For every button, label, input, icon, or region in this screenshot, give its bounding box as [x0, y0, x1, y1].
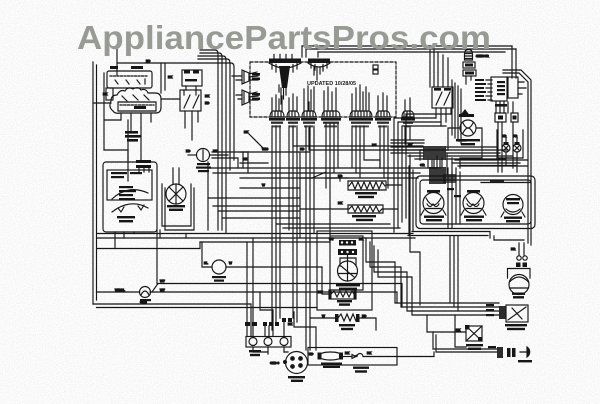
- fan motor label: [512, 293, 525, 295]
- bus wire 4: [97, 242, 200, 249]
- wire lamps drop: [506, 152, 517, 158]
- drop wire c1c: [279, 126, 281, 318]
- terminal wires labels row 5: [275, 322, 279, 326]
- wire door lock feed stub: [455, 314, 499, 316]
- wire right column b: [212, 152, 248, 168]
- small box pair 2 mark: [513, 116, 517, 120]
- connector J4 sub label: [324, 125, 337, 127]
- upper box dashed row: [110, 75, 148, 77]
- DLB upper pin blobs 2: [193, 71, 199, 74]
- surface unit RF label 2: [466, 219, 482, 221]
- broil element label: [339, 324, 355, 326]
- relay K2 routed wire a: [394, 118, 436, 232]
- terminal wires labels row 7: [288, 318, 292, 322]
- door lock motor label: [505, 324, 527, 326]
- connector J6 sub label: [352, 125, 369, 127]
- bottom right bars: [507, 348, 511, 357]
- relay K2 pin blobs: [434, 88, 441, 91]
- wire J5 drops: [139, 168, 149, 172]
- connector J1 bell body: [270, 111, 284, 117]
- center horiz wire e: [208, 197, 300, 199]
- junction blob center: [423, 146, 446, 160]
- connector J2 sub label: [289, 125, 296, 127]
- main bus wire 2: [97, 237, 415, 239]
- svg-text:W: W: [229, 261, 232, 265]
- svg-text:BU: BU: [372, 143, 376, 147]
- bake element U label: [352, 215, 376, 217]
- relay pin wire 4: [150, 113, 152, 122]
- plug receptacle label: [353, 367, 369, 369]
- junction fan wire 5: [446, 158, 505, 160]
- svg-text:AppliancePartsPros.com: AppliancePartsPros.com: [77, 19, 491, 56]
- relay K2 box: [432, 87, 453, 108]
- center horiz wire h: [222, 217, 300, 219]
- terminal block label: [249, 350, 261, 352]
- connector J4 label band 2: [323, 122, 339, 124]
- connector J8 bell ribs: [404, 112, 410, 117]
- terminal block label 2: [250, 354, 260, 356]
- surface units outer loop: [416, 176, 535, 229]
- center horiz wire g: [218, 210, 300, 212]
- surface unit RR label: [504, 217, 522, 219]
- wire door relay feed: [427, 315, 466, 332]
- stair step wire b: [370, 242, 499, 307]
- motor loop U1: [162, 184, 191, 226]
- drop wire c4b: [329, 124, 331, 236]
- connector J7 label band: [375, 118, 391, 121]
- center horiz wire j: [283, 227, 400, 229]
- conv fan hatch 2 dots b: [346, 251, 348, 253]
- center horiz wire b: [213, 172, 420, 174]
- connector P1 shell arc: [269, 63, 301, 68]
- temp control label rows: [117, 216, 135, 218]
- broil element caps: [335, 314, 339, 322]
- wire plug right: [364, 352, 434, 357]
- connector J3 sub label: [304, 125, 313, 127]
- wire lamps cluster drops: [498, 122, 517, 172]
- terminal screw 2: [264, 338, 272, 346]
- surface unit RR inner rows: [506, 198, 520, 200]
- surface unit RF omega: [467, 204, 479, 207]
- DLB upper pin blobs: [184, 71, 190, 74]
- connector P1 label band: [269, 59, 301, 64]
- wire relay-DLB link: [161, 98, 180, 100]
- connector J1 sub label: [272, 125, 281, 127]
- conv fan label: [336, 284, 360, 286]
- bake element U right wire: [383, 208, 398, 210]
- oven indicator label rows 2: [461, 143, 475, 145]
- DLB link wires: [186, 86, 196, 90]
- center long wire k: [293, 128, 423, 146]
- svg-text:W: W: [322, 314, 325, 318]
- terminal wires labels row 6: [282, 318, 286, 322]
- connector J4 pins: [324, 87, 336, 111]
- clock pin row 6: [475, 99, 486, 101]
- surface bottom wire 2: [408, 235, 488, 237]
- conv fan hatch 1: [339, 240, 356, 246]
- surface unit RR circle: [503, 195, 523, 215]
- bake element caps 2: [354, 291, 357, 299]
- relay K2 drop wires: [436, 108, 451, 126]
- door lock connector hatch: [499, 306, 506, 319]
- relay elbow down-left: [104, 73, 121, 150]
- fan motor chain vertical: [519, 243, 524, 255]
- door switch X: [466, 326, 482, 341]
- connector J7 bell ribs: [378, 112, 387, 117]
- surface unit RF label: [464, 216, 484, 218]
- oven light label rows: [140, 299, 151, 301]
- junction smudge: [429, 167, 446, 184]
- connector J8 sub label: [404, 125, 411, 127]
- clock box U1b: [508, 77, 518, 98]
- connector J6 label band 2: [351, 122, 371, 124]
- drop wire c1b: [275, 126, 277, 322]
- lamp CR cap: [504, 142, 509, 145]
- connector P4 ribs: [244, 92, 258, 103]
- drop wire c8b: [409, 128, 411, 140]
- wire broil right: [359, 318, 376, 330]
- motor loop U2: [165, 188, 194, 230]
- stair step wire a: [366, 238, 499, 303]
- bake element zigzag: [331, 291, 354, 297]
- fan motor eyelid arc: [510, 277, 529, 282]
- main bus wire 1: [97, 233, 413, 235]
- clock wrap wire b: [454, 83, 456, 138]
- relay K2 routed wire c: [402, 126, 446, 222]
- connector J8 bell body: [402, 111, 414, 117]
- wire P3 left feed: [232, 76, 242, 80]
- surface units top wire: [460, 166, 531, 183]
- fan motor cup: [508, 269, 531, 279]
- clock inner rows: [497, 81, 505, 83]
- fuse label rows: [321, 363, 342, 365]
- plug receptacle symbol: [352, 354, 363, 359]
- drop wire c3b: [309, 126, 311, 350]
- connector P1 top stubs: [274, 55, 292, 59]
- drop wire c4a: [325, 124, 327, 188]
- broil element U zigzag: [349, 182, 385, 189]
- left frame wire: [92, 62, 94, 304]
- stair wire s2: [410, 155, 420, 305]
- bottom right label BK: [488, 346, 496, 348]
- fan motor connector dots 2: [523, 256, 527, 260]
- wire fuse to plug: [343, 356, 352, 358]
- broil element U upper box: [348, 181, 386, 190]
- bake element U lower box: [348, 205, 383, 213]
- fan motor circle: [509, 275, 529, 295]
- oven control outer box: [103, 162, 157, 232]
- svg-text:WT: WT: [329, 237, 334, 241]
- oven light L2 circle: [140, 287, 151, 298]
- connector J1 bell ribs: [272, 112, 281, 117]
- connector P2 bundle: [314, 66, 323, 80]
- junction fan wire 3: [446, 152, 500, 154]
- door switch label 2: [468, 348, 481, 350]
- small box pair 1: [495, 113, 506, 122]
- lamp PR oval: [513, 144, 521, 152]
- bake element U label 2: [356, 219, 373, 221]
- connector J2 bell ribs: [289, 112, 295, 117]
- connector J1 label band: [269, 118, 285, 121]
- wire elbow to fuse: [294, 312, 316, 350]
- surface unit RF top blob: [467, 190, 480, 193]
- fuse end caps 2: [339, 353, 343, 360]
- connector P2 label band: [308, 59, 330, 64]
- clock wrap wire d: [460, 89, 462, 144]
- center horiz wire f: [213, 205, 300, 207]
- power cord prong dots: [291, 357, 295, 361]
- sensor plug blob 1: [465, 64, 473, 67]
- drop wire c7c: [387, 126, 389, 188]
- drop wire c2c: [296, 126, 298, 322]
- wire bottom frame 2: [97, 307, 318, 309]
- junction fan wire 2: [446, 149, 508, 151]
- wire cord to block: [268, 352, 288, 354]
- wire oven light fork: [152, 230, 402, 308]
- oven control upper box: [107, 71, 152, 88]
- surface unit RR label 2: [506, 220, 520, 222]
- bake element U zigzag: [349, 206, 382, 212]
- fan motor crimp marks: [516, 263, 521, 268]
- drop wire c6b: [355, 126, 357, 173]
- clock wrap wire a: [451, 80, 453, 135]
- temp control label rows 2: [119, 220, 133, 222]
- junction fan wire 1: [446, 146, 496, 148]
- DLB upper inner row: [185, 79, 197, 81]
- surface unit LF label 2: [426, 219, 442, 221]
- svg-text:BL: BL: [204, 261, 208, 265]
- power label flag: [459, 114, 474, 117]
- relay elbow lower: [104, 150, 128, 160]
- relay label blob: [134, 106, 146, 109]
- temp control ticks: [118, 205, 144, 212]
- bake element caps: [329, 291, 332, 299]
- wires control box drops: [115, 230, 186, 249]
- connector P3 ribs: [244, 72, 258, 82]
- clock pin row 2: [475, 83, 486, 85]
- connector P4 pin blobs 2: [252, 98, 260, 101]
- drop wire c2b: [292, 126, 294, 318]
- wire right column c: [243, 152, 248, 173]
- connector J5 hatch row: [136, 160, 151, 163]
- surface bottom wire: [412, 232, 490, 239]
- DLB drop wire 2: [191, 111, 193, 140]
- connector J4 bell body: [322, 111, 340, 117]
- svg-text:W: W: [262, 183, 265, 187]
- svg-text:WT: WT: [160, 288, 165, 292]
- drop wire c7b: [383, 126, 385, 178]
- left edge verticals: [409, 166, 413, 235]
- top bus wire: [117, 62, 198, 64]
- bottom right connector hatch: [497, 347, 503, 358]
- connector J2 bell body: [287, 111, 299, 117]
- drop wire c8a: [404, 128, 406, 144]
- wire elbow to block: [260, 292, 273, 310]
- surface unit RF inner arc: [466, 198, 481, 209]
- wire DLB top drops: [161, 63, 165, 93]
- svg-text:W/DBL: W/DBL: [115, 288, 125, 292]
- drop wire c4c: [333, 124, 335, 172]
- bake element U feed left: [300, 208, 348, 210]
- upper box ticks: [115, 79, 145, 84]
- connector J2 pins: [289, 94, 297, 111]
- oven indicator light circle: [460, 120, 476, 136]
- terminal block box: [246, 337, 291, 348]
- label latch sw rows: [125, 131, 138, 134]
- surface unit RR terminals: [501, 212, 525, 217]
- wire clock drops: [496, 102, 513, 113]
- door switch corner pads: [465, 325, 470, 330]
- top bus bundle 3: [198, 56, 226, 233]
- power cord prong dots 2: [299, 357, 303, 361]
- oven indicator label rows: [456, 139, 480, 141]
- conv fan hatch 1 dots: [341, 241, 343, 243]
- power cord label 2: [291, 380, 303, 382]
- connector P1 bundle tails: [279, 85, 286, 104]
- connector P4 fan left lower: [242, 90, 249, 105]
- wire right column a: [207, 162, 209, 230]
- fan motor chord: [510, 287, 529, 289]
- conv fan motor label: [167, 205, 185, 207]
- drop wire c6a: [351, 126, 353, 168]
- drop wire c3c: [313, 126, 315, 233]
- connector J7 sub label: [378, 125, 387, 127]
- cluster bottom wire c: [458, 165, 527, 167]
- oven relay K1 inner box: [118, 102, 156, 111]
- top bus bundle 4: [198, 59, 230, 170]
- drop wire c1a: [271, 126, 273, 330]
- door switch corner pads 2: [478, 337, 483, 342]
- center horiz wire a: [208, 167, 438, 169]
- drop wire c4d: [337, 124, 339, 168]
- clock wrap wire c: [458, 86, 466, 141]
- frame side tap box: [106, 88, 113, 100]
- broil element caps 2: [356, 314, 360, 322]
- wire broil left: [310, 317, 335, 319]
- junction left wires: [391, 147, 423, 159]
- outer border right inner: [503, 73, 528, 243]
- top bus bundle 1: [200, 50, 218, 230]
- conv fan hatch 2: [338, 249, 357, 255]
- broil element U label: [355, 192, 377, 194]
- junction fan wire 4: [446, 155, 512, 157]
- wire indicator route: [448, 128, 482, 150]
- selector row label 4: [119, 198, 135, 200]
- wire lamp right: [210, 154, 228, 156]
- lamp CR oval: [502, 144, 510, 152]
- wire clock right: [518, 82, 526, 94]
- hi-limit label rows 2: [214, 280, 224, 282]
- connector P1 ribs: [272, 63, 297, 72]
- conv fan stem: [347, 256, 349, 263]
- door lock motor box: [506, 305, 528, 322]
- connector J6 bell ribs: [352, 112, 370, 117]
- connector J7 pins: [378, 93, 387, 111]
- power cord prong dots 4: [299, 364, 303, 368]
- sensor plug box 2: [463, 70, 476, 76]
- oven relay K1 outline: [110, 88, 161, 114]
- top right bus wire: [430, 46, 438, 87]
- wire oven light right: [150, 292, 397, 303]
- cluster bottom wire a: [455, 159, 527, 161]
- svg-text:GRD 3: GRD 3: [270, 361, 280, 365]
- lamp CR stem: [504, 138, 508, 150]
- element section left rail: [299, 152, 301, 238]
- terminal screw 3: [280, 338, 288, 346]
- wire bake left: [322, 267, 329, 294]
- bake element label 2: [339, 303, 350, 305]
- wire sensor drop: [466, 76, 471, 84]
- broil element U feed left: [300, 172, 348, 181]
- surface unit RF terminals: [461, 210, 486, 215]
- connector J8 label band 2: [403, 122, 413, 124]
- upper box label blob: [131, 66, 143, 69]
- door lock motor label 2: [507, 328, 525, 330]
- wire relay feed: [116, 46, 118, 75]
- wire junction fan: [432, 154, 452, 178]
- power triangle: [462, 110, 468, 114]
- connector P3 pin blobs: [252, 73, 260, 76]
- small box pair 2: [511, 113, 518, 122]
- connector J3 label band 2: [303, 122, 315, 124]
- bake element box: [329, 290, 356, 299]
- hot surface indicator light L1: [197, 149, 210, 162]
- hot surface label rows 3: [198, 170, 209, 172]
- lamp PR cap: [515, 142, 520, 145]
- drop wire c6d: [364, 126, 380, 168]
- oven sensor hatch: [466, 54, 472, 59]
- conv fan hatch 2 dots: [341, 251, 343, 253]
- temp control arc: [112, 204, 148, 212]
- power cord circle: [286, 352, 308, 374]
- conv fan hatch 1 dots b: [346, 241, 348, 243]
- surface unit LF circle: [423, 193, 444, 214]
- junction smudge 2: [443, 174, 456, 183]
- top wire labels: [490, 180, 504, 182]
- connector P2 ribs: [311, 63, 327, 70]
- surface unit LF inner arc: [426, 198, 441, 209]
- connector J7 label band 2: [377, 122, 389, 124]
- wire right bottom corner: [494, 236, 524, 240]
- hot surface label rows 2: [196, 167, 211, 169]
- selector head rows: [111, 172, 127, 174]
- bake element label: [337, 300, 352, 302]
- right feed vertical c: [457, 236, 459, 311]
- small box pair 1 mark: [498, 116, 503, 120]
- selector switch box: [107, 170, 152, 200]
- conv fan motor label 2: [169, 209, 183, 211]
- conv fan outer enclosure: [317, 231, 372, 310]
- power cord prong dots 3: [291, 365, 295, 369]
- broil element label 2: [341, 328, 353, 330]
- DLB switch blade 1: [184, 90, 190, 108]
- lamps enclosure: [497, 130, 523, 158]
- wire border verticals top: [512, 46, 516, 78]
- unit mid verticals: [448, 168, 460, 228]
- connector J4 label band: [321, 118, 341, 121]
- connector J2 label band 2: [288, 122, 298, 124]
- terminal wires labels row: [245, 322, 250, 326]
- sensor plug blob 2: [465, 72, 474, 75]
- wire lamp left: [188, 154, 196, 156]
- connector J3 bell ribs: [304, 112, 313, 117]
- terminal screw 1: [249, 338, 257, 346]
- door switch box: [466, 326, 482, 341]
- clock pin row 1: [475, 79, 484, 81]
- selector switch arc: [112, 190, 148, 199]
- clock inner rows 3: [497, 89, 505, 91]
- wire column left: [127, 120, 129, 181]
